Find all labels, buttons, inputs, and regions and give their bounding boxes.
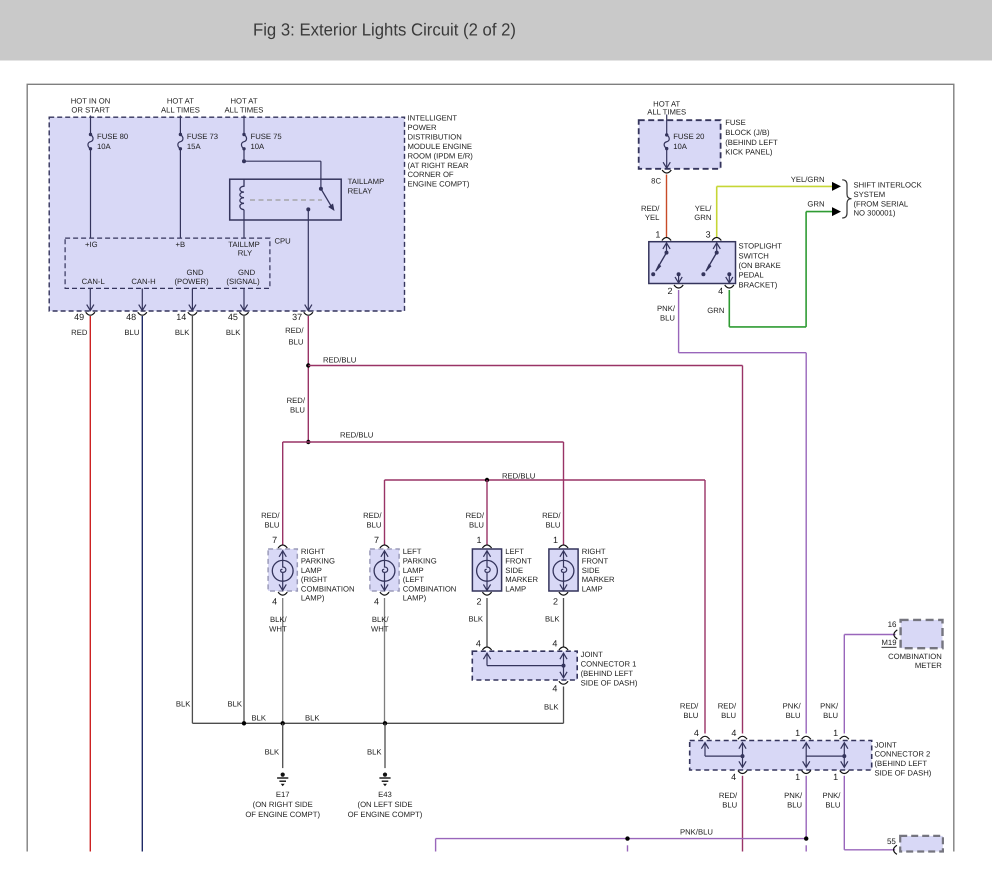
svg-text:1: 1 bbox=[476, 535, 481, 545]
svg-text:WHT: WHT bbox=[371, 625, 389, 634]
wire PNK/BLU JC2 pin1a down bbox=[805, 776, 807, 839]
svg-text:CONNECTOR 1: CONNECTOR 1 bbox=[581, 660, 637, 669]
wire PNK/BLU JC2 pin1b to connector 55 bbox=[843, 776, 845, 850]
JC1 pin 4 right bbox=[559, 647, 568, 650]
JC2 top pin 1b bbox=[840, 736, 849, 739]
IPDM E/R module box bbox=[49, 117, 404, 311]
wire fuse 73 to CPU +B bbox=[179, 149, 181, 238]
svg-text:BLK: BLK bbox=[226, 328, 241, 337]
svg-text:BLK: BLK bbox=[265, 748, 280, 757]
svg-text:BLU: BLU bbox=[787, 800, 802, 809]
svg-text:BLU: BLU bbox=[290, 406, 305, 415]
svg-text:COMBINATION: COMBINATION bbox=[888, 652, 942, 661]
svg-text:YEL: YEL bbox=[645, 213, 660, 222]
svg-text:(ON LEFT SIDE: (ON LEFT SIDE bbox=[358, 800, 413, 809]
svg-text:PNK/: PNK/ bbox=[657, 304, 676, 313]
relay switch contact bbox=[320, 179, 322, 187]
svg-text:OF ENGINE COMPT): OF ENGINE COMPT) bbox=[245, 810, 320, 819]
ground E17 bbox=[281, 773, 285, 777]
svg-text:(BEHIND LEFT: (BEHIND LEFT bbox=[725, 138, 778, 147]
svg-text:7: 7 bbox=[374, 535, 379, 545]
svg-text:BLK: BLK bbox=[252, 713, 267, 722]
svg-text:49: 49 bbox=[74, 312, 84, 322]
wire feed to fuse 20 bbox=[666, 115, 668, 135]
svg-text:(SIGNAL): (SIGNAL) bbox=[226, 277, 260, 286]
rail 2 RED/BLU (parking lamps feed) bbox=[283, 441, 564, 443]
svg-text:10A: 10A bbox=[673, 142, 688, 151]
svg-text:(POWER): (POWER) bbox=[175, 277, 210, 286]
svg-text:BLU: BLU bbox=[469, 521, 484, 530]
stoplight pin 2 stub bbox=[677, 272, 681, 276]
svg-text:SHIFT INTERLOCK: SHIFT INTERLOCK bbox=[854, 181, 923, 190]
svg-text:10A: 10A bbox=[97, 142, 112, 151]
wire CPU GND(SIGNAL) to pin 45 bbox=[243, 288, 245, 310]
IPDM pin 14 connector bbox=[189, 305, 196, 311]
svg-text:Fig 3: Exterior Lights Circuit: Fig 3: Exterior Lights Circuit (2 of 2) bbox=[253, 20, 516, 40]
wire CPU GND(POWER) to pin 14 bbox=[191, 288, 193, 310]
svg-text:1: 1 bbox=[833, 772, 838, 782]
svg-text:4: 4 bbox=[476, 638, 481, 648]
svg-text:RED/: RED/ bbox=[466, 511, 485, 520]
svg-text:HOT AT: HOT AT bbox=[167, 97, 194, 106]
svg-text:SIDE OF DASH): SIDE OF DASH) bbox=[581, 679, 638, 688]
JC1 bottom pin 4 bbox=[560, 672, 567, 678]
relay switch blade bbox=[321, 189, 332, 207]
JC2 bottom pin 1a bbox=[803, 761, 810, 767]
svg-text:4: 4 bbox=[718, 286, 723, 296]
right parking lamp (right combination lamp) bbox=[268, 549, 297, 591]
svg-text:CPU: CPU bbox=[275, 237, 291, 246]
svg-text:FUSE: FUSE bbox=[725, 118, 746, 127]
svg-text:SYSTEM: SYSTEM bbox=[854, 190, 886, 199]
rail 1 RED/BLU to joint connector 2 bbox=[308, 365, 742, 367]
svg-text:1: 1 bbox=[795, 772, 800, 782]
svg-text:PEDAL: PEDAL bbox=[739, 271, 765, 280]
svg-text:BLU: BLU bbox=[683, 711, 698, 720]
wire 49 RED (CAN-L) bbox=[89, 316, 91, 852]
svg-text:FUSE 75: FUSE 75 bbox=[251, 132, 282, 141]
relay output node bbox=[306, 207, 310, 211]
svg-text:DISTRIBUTION: DISTRIBUTION bbox=[408, 132, 462, 141]
wire left front side marker BLK to joint connector 1 bbox=[486, 598, 488, 647]
stoplight pin 4 bbox=[725, 285, 734, 288]
wire drop to E17 bbox=[282, 723, 284, 768]
svg-text:(BEHIND LEFT: (BEHIND LEFT bbox=[875, 759, 928, 768]
svg-text:SIDE OF DASH): SIDE OF DASH) bbox=[875, 768, 932, 777]
svg-text:RED/: RED/ bbox=[719, 791, 738, 800]
JC2 bottom pin 4 bbox=[739, 761, 746, 767]
svg-text:BLK: BLK bbox=[468, 615, 483, 624]
wire right parking lamp BLK/WHT to ground bus bbox=[282, 598, 284, 723]
svg-text:RED/: RED/ bbox=[542, 511, 561, 520]
wire right front side marker BLK to joint connector 1 bbox=[563, 598, 565, 647]
svg-text:(ON BRAKE: (ON BRAKE bbox=[739, 261, 781, 270]
svg-text:BLU: BLU bbox=[721, 711, 736, 720]
svg-text:RED/: RED/ bbox=[680, 702, 699, 711]
svg-text:BLU: BLU bbox=[786, 711, 801, 720]
wire CPU CAN-L to pin 49 bbox=[89, 288, 91, 310]
wire YEL/GRN to shift interlock bbox=[716, 186, 718, 238]
stoplight pin 3 bbox=[712, 238, 721, 241]
svg-text:RED/BLU: RED/BLU bbox=[502, 471, 535, 480]
svg-text:ROOM (IPDM E/R): ROOM (IPDM E/R) bbox=[408, 151, 474, 160]
fuse 80 10A bbox=[89, 133, 92, 136]
wire from HOT IN ON to fuse 80 bbox=[90, 116, 92, 135]
svg-text:14: 14 bbox=[176, 312, 186, 322]
svg-text:COMBINATION: COMBINATION bbox=[301, 584, 355, 593]
svg-text:NO 300001): NO 300001) bbox=[854, 209, 896, 218]
wire fuse 80 to CPU +IG bbox=[90, 149, 92, 238]
svg-text:POWER: POWER bbox=[408, 123, 437, 132]
arrow GRN bbox=[832, 207, 841, 216]
wire junction to relay contact bbox=[244, 160, 321, 162]
svg-text:BLU: BLU bbox=[722, 800, 737, 809]
stoplight pin 4 stub bbox=[727, 272, 731, 276]
fuse block pin 8C connector bbox=[663, 162, 670, 168]
svg-text:4: 4 bbox=[731, 772, 736, 782]
IPDM pin 45 connector bbox=[240, 305, 247, 311]
svg-text:BLK: BLK bbox=[227, 700, 242, 709]
svg-text:FUSE 73: FUSE 73 bbox=[187, 132, 218, 141]
svg-text:LAMP: LAMP bbox=[505, 584, 526, 593]
svg-text:RED/: RED/ bbox=[287, 396, 306, 405]
svg-text:BLK: BLK bbox=[545, 615, 560, 624]
svg-text:BLK: BLK bbox=[175, 328, 190, 337]
svg-text:FRONT: FRONT bbox=[505, 557, 532, 566]
fuse block J/B box bbox=[639, 120, 721, 169]
junction wire37/rail1 bbox=[306, 363, 310, 367]
svg-text:PARKING: PARKING bbox=[403, 557, 437, 566]
svg-text:BLK: BLK bbox=[305, 713, 320, 722]
svg-text:(ON RIGHT SIDE: (ON RIGHT SIDE bbox=[253, 800, 313, 809]
svg-text:BLK: BLK bbox=[176, 700, 191, 709]
svg-text:RED/: RED/ bbox=[363, 511, 382, 520]
stoplight switch contact 1-2 bbox=[663, 243, 670, 249]
fuse 20 10A bbox=[665, 133, 668, 136]
svg-text:PNK/: PNK/ bbox=[822, 791, 841, 800]
wire 37 RED/BLU down bbox=[307, 316, 309, 442]
svg-text:HOT IN ON: HOT IN ON bbox=[71, 97, 111, 106]
JC2 internal junction right bbox=[842, 754, 846, 758]
svg-text:CAN-L: CAN-L bbox=[82, 277, 106, 286]
svg-text:BLU: BLU bbox=[289, 337, 304, 346]
svg-text:LAMP: LAMP bbox=[403, 566, 424, 575]
wire JC1 to ground bus BLK bbox=[563, 687, 565, 724]
svg-text:HOT AT: HOT AT bbox=[230, 97, 257, 106]
wire RED/BLU JC2 pin4 down bbox=[742, 776, 744, 852]
svg-text:FUSE 80: FUSE 80 bbox=[97, 132, 128, 141]
svg-text:BLU: BLU bbox=[823, 711, 838, 720]
svg-text:E17: E17 bbox=[276, 790, 290, 799]
svg-text:(BEHIND LEFT: (BEHIND LEFT bbox=[581, 669, 634, 678]
svg-text:ALL TIMES: ALL TIMES bbox=[161, 106, 200, 115]
svg-text:YEL/GRN: YEL/GRN bbox=[791, 175, 825, 184]
svg-text:2: 2 bbox=[667, 286, 672, 296]
bottom rail PNK/BLU bbox=[435, 839, 437, 852]
svg-text:RED: RED bbox=[71, 328, 88, 337]
svg-text:TAILLAMP: TAILLAMP bbox=[348, 177, 385, 186]
wire fuse 75 to junction bbox=[243, 149, 245, 161]
svg-text:BLK: BLK bbox=[367, 748, 382, 757]
svg-text:KICK PANEL): KICK PANEL) bbox=[725, 148, 773, 157]
svg-text:PNK/: PNK/ bbox=[784, 791, 803, 800]
wire fuse 20 to connector 8C bbox=[666, 149, 668, 168]
JC2 bottom pin 1b bbox=[841, 761, 848, 767]
svg-text:MARKER: MARKER bbox=[582, 575, 615, 584]
svg-text:INTELLIGENT: INTELLIGENT bbox=[408, 114, 458, 123]
svg-text:1: 1 bbox=[655, 229, 660, 239]
svg-text:BLK: BLK bbox=[544, 703, 559, 712]
relay mechanical link (dashed) bbox=[250, 199, 322, 201]
svg-text:GRN: GRN bbox=[807, 200, 824, 209]
wire PNK/BLU stoplight pin 2 to JC2 bbox=[678, 290, 680, 353]
svg-text:15A: 15A bbox=[187, 142, 202, 151]
wire 45 BLK down to ground bus bbox=[243, 316, 245, 723]
svg-text:BLU: BLU bbox=[367, 521, 382, 530]
fuse 75 10A bbox=[242, 133, 245, 136]
svg-text:+B: +B bbox=[175, 240, 185, 249]
svg-text:4: 4 bbox=[694, 728, 699, 738]
svg-text:1: 1 bbox=[833, 728, 838, 738]
wire relay output to pin 37 bbox=[307, 209, 309, 311]
svg-text:BLU: BLU bbox=[825, 800, 840, 809]
svg-text:E43: E43 bbox=[378, 790, 392, 799]
svg-text:LAMP): LAMP) bbox=[403, 594, 427, 603]
svg-text:FRONT: FRONT bbox=[582, 557, 609, 566]
rail 3 RED/BLU (side marker feed) bbox=[385, 479, 706, 481]
svg-text:+IG: +IG bbox=[85, 240, 98, 249]
JC2 internal junction left bbox=[741, 754, 745, 758]
svg-text:BRACKET): BRACKET) bbox=[739, 280, 778, 289]
connector 55 bbox=[894, 845, 897, 854]
junction rail3/left front side marker bbox=[485, 478, 489, 482]
stoplight switch contact 3-4 bbox=[713, 243, 720, 249]
junction fuse75/relay bbox=[242, 159, 246, 163]
svg-text:OR START: OR START bbox=[71, 106, 109, 115]
joint connector 1 box bbox=[472, 651, 577, 680]
svg-text:LAMP: LAMP bbox=[301, 566, 322, 575]
svg-text:GRN: GRN bbox=[707, 306, 724, 315]
svg-text:LEFT: LEFT bbox=[403, 547, 422, 556]
ground E43 bbox=[383, 773, 387, 777]
svg-text:OF ENGINE COMPT): OF ENGINE COMPT) bbox=[348, 810, 423, 819]
JC2 internal bus right bbox=[806, 755, 844, 757]
arrow YEL/GRN bbox=[832, 182, 841, 191]
svg-text:10A: 10A bbox=[251, 142, 266, 151]
svg-text:4: 4 bbox=[552, 684, 557, 694]
svg-text:LEFT: LEFT bbox=[505, 547, 524, 556]
svg-text:16: 16 bbox=[888, 620, 897, 629]
svg-text:LAMP: LAMP bbox=[582, 584, 603, 593]
svg-text:GND: GND bbox=[238, 268, 256, 277]
svg-text:GND: GND bbox=[186, 268, 204, 277]
fuse 73 15A bbox=[179, 133, 182, 136]
svg-text:CONNECTOR 2: CONNECTOR 2 bbox=[875, 750, 931, 759]
svg-text:PNK/BLU: PNK/BLU bbox=[680, 827, 713, 836]
wire 14 BLK down to ground bus bbox=[191, 316, 193, 723]
JC2 top pin 4a bbox=[700, 736, 709, 739]
svg-text:4: 4 bbox=[731, 728, 736, 738]
svg-text:PNK/: PNK/ bbox=[820, 702, 839, 711]
IPDM pin 37 connector bbox=[305, 305, 312, 311]
svg-text:(AT RIGHT REAR: (AT RIGHT REAR bbox=[408, 161, 470, 170]
wire left parking lamp BLK/WHT to ground bus bbox=[384, 598, 386, 723]
svg-text:2: 2 bbox=[476, 597, 481, 607]
wire drop to E43 bbox=[384, 723, 386, 768]
stoplight pin 2 bbox=[674, 285, 683, 288]
junction bus/wire45 bbox=[242, 721, 246, 725]
stoplight pin 1 bbox=[662, 238, 671, 241]
JC2 top pin 4b bbox=[738, 736, 747, 739]
svg-text:8C: 8C bbox=[651, 177, 661, 186]
svg-text:2: 2 bbox=[553, 597, 558, 607]
JC1 pin 4 left bbox=[482, 647, 491, 650]
svg-text:55: 55 bbox=[887, 837, 896, 846]
svg-text:COMBINATION: COMBINATION bbox=[403, 584, 457, 593]
wire relay coil to CPU TAILLMP RLY bbox=[243, 210, 245, 238]
wire RED/YEL fuse block to stoplight switch pin 1 bbox=[666, 175, 668, 239]
svg-text:BLOCK (J/B): BLOCK (J/B) bbox=[725, 128, 770, 137]
wire from HOT AT ALL TIMES to fuse 75 bbox=[243, 116, 245, 135]
junction bottom rail stub bbox=[625, 836, 629, 840]
svg-text:BLK/: BLK/ bbox=[270, 615, 288, 624]
stoplight switch box bbox=[649, 242, 736, 284]
svg-text:RED/: RED/ bbox=[285, 326, 304, 335]
svg-text:7: 7 bbox=[272, 535, 277, 545]
svg-text:SWITCH: SWITCH bbox=[739, 251, 769, 260]
svg-text:JOINT: JOINT bbox=[581, 650, 604, 659]
relay coil bbox=[240, 179, 244, 210]
svg-text:RIGHT: RIGHT bbox=[301, 547, 325, 556]
svg-text:4: 4 bbox=[272, 597, 277, 607]
svg-text:3: 3 bbox=[706, 229, 711, 239]
junction bus/E17 drop bbox=[281, 721, 285, 725]
svg-text:BLK/: BLK/ bbox=[372, 615, 390, 624]
junction wire37/rail2 bbox=[306, 440, 310, 444]
svg-text:RED/: RED/ bbox=[641, 204, 660, 213]
wire GRN stoplight pin 4 bbox=[728, 290, 730, 327]
svg-text:RED/: RED/ bbox=[718, 702, 737, 711]
svg-text:(LEFT: (LEFT bbox=[403, 575, 425, 584]
svg-text:BLU: BLU bbox=[546, 521, 561, 530]
combination meter pin 16 connector bbox=[894, 630, 897, 639]
svg-text:RIGHT: RIGHT bbox=[582, 547, 606, 556]
JC2 top pin 1a bbox=[802, 736, 811, 739]
svg-text:CAN-H: CAN-H bbox=[131, 277, 155, 286]
svg-text:BLU: BLU bbox=[660, 314, 675, 323]
JC2 internal bus left bbox=[705, 755, 743, 757]
IPDM pin 48 connector bbox=[139, 305, 146, 311]
combination meter box bbox=[901, 620, 943, 648]
svg-text:WHT: WHT bbox=[269, 625, 287, 634]
wire GRN to shift interlock bbox=[806, 211, 832, 213]
wire rail3 to left front side marker lamp bbox=[486, 480, 488, 545]
taillamp relay box bbox=[230, 179, 342, 220]
svg-text:GRN: GRN bbox=[694, 213, 711, 222]
svg-text:CORNER OF: CORNER OF bbox=[408, 170, 454, 179]
svg-text:YEL/: YEL/ bbox=[695, 204, 713, 213]
svg-text:METER: METER bbox=[915, 661, 942, 670]
svg-text:RED/: RED/ bbox=[261, 511, 280, 520]
svg-text:RLY: RLY bbox=[238, 249, 252, 258]
svg-text:BLU: BLU bbox=[124, 328, 139, 337]
left parking lamp (left combination lamp) bbox=[370, 549, 399, 591]
svg-text:RED/BLU: RED/BLU bbox=[323, 356, 356, 365]
svg-text:M19: M19 bbox=[882, 638, 897, 647]
svg-text:MARKER: MARKER bbox=[505, 575, 538, 584]
JC1 internal bus bbox=[487, 665, 564, 667]
left front side marker lamp bbox=[472, 549, 501, 591]
wire CPU CAN-H to pin 48 bbox=[141, 288, 143, 310]
svg-text:JOINT: JOINT bbox=[875, 740, 898, 749]
svg-text:RED/BLU: RED/BLU bbox=[340, 431, 373, 440]
svg-text:RELAY: RELAY bbox=[348, 187, 373, 196]
svg-text:1: 1 bbox=[553, 535, 558, 545]
svg-text:1: 1 bbox=[795, 728, 800, 738]
wire from HOT AT ALL TIMES to fuse 73 bbox=[179, 116, 181, 135]
header bar bbox=[0, 0, 992, 61]
svg-text:STOPLIGHT: STOPLIGHT bbox=[739, 242, 783, 251]
svg-text:ALL TIMES: ALL TIMES bbox=[225, 106, 264, 115]
connector 55 box bbox=[900, 836, 943, 852]
junction bottom rail / JC2 pin1a bbox=[804, 836, 808, 840]
svg-text:(FROM SERIAL: (FROM SERIAL bbox=[854, 199, 909, 208]
wire PNK/BLU to combination meter bbox=[843, 635, 845, 734]
svg-text:(RIGHT: (RIGHT bbox=[301, 575, 328, 584]
CPU box bbox=[65, 238, 270, 288]
svg-text:ENGINE COMPT): ENGINE COMPT) bbox=[408, 180, 470, 189]
shift interlock brace bbox=[842, 180, 851, 218]
ground bus BLK bbox=[192, 722, 563, 724]
svg-text:48: 48 bbox=[126, 312, 136, 322]
joint connector 2 box bbox=[690, 741, 872, 771]
svg-text:BLU: BLU bbox=[265, 521, 280, 530]
JC1 internal junction bbox=[562, 664, 566, 668]
junction bus/E43 drop bbox=[383, 721, 387, 725]
right front side marker lamp bbox=[549, 549, 578, 591]
svg-text:FUSE 20: FUSE 20 bbox=[673, 132, 704, 141]
svg-text:37: 37 bbox=[292, 312, 302, 322]
svg-text:PARKING: PARKING bbox=[301, 557, 335, 566]
svg-text:PNK/: PNK/ bbox=[783, 702, 802, 711]
IPDM pin 49 connector bbox=[87, 305, 94, 311]
svg-text:45: 45 bbox=[228, 312, 238, 322]
svg-text:SIDE: SIDE bbox=[505, 566, 523, 575]
svg-text:MODULE ENGINE: MODULE ENGINE bbox=[408, 142, 473, 151]
svg-text:SIDE: SIDE bbox=[582, 566, 600, 575]
svg-text:4: 4 bbox=[552, 638, 557, 648]
wire 48 BLU (CAN-H) bbox=[141, 316, 143, 852]
svg-text:4: 4 bbox=[374, 597, 379, 607]
svg-text:LAMP): LAMP) bbox=[301, 594, 325, 603]
